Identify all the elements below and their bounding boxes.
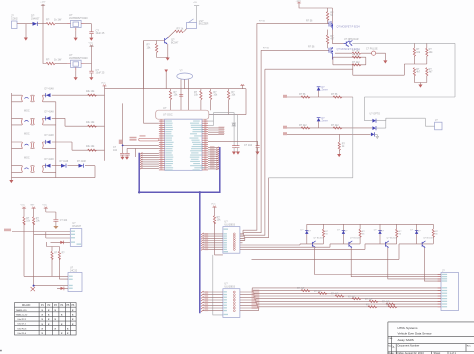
diode D19 <box>61 287 64 290</box>
crystal X1 <box>232 123 236 126</box>
svg-text:1k 1W: 1k 1W <box>54 57 62 61</box>
ground small <box>375 134 379 138</box>
ground <box>89 77 93 80</box>
svg-text:Zener: Zener <box>322 89 328 92</box>
ground earth <box>53 226 58 229</box>
svg-text:DK+MO: DK+MO <box>22 305 30 307</box>
relay cell 2 transistor Q6 <box>343 243 360 245</box>
U5 outputs icons <box>233 233 235 250</box>
resistor R6 <box>200 91 202 100</box>
svg-text:R? 56: R? 56 <box>308 45 315 48</box>
riser 4 <box>240 178 269 241</box>
connector J3 <box>435 122 442 130</box>
svg-text:Q? BC547: Q? BC547 <box>350 238 361 240</box>
IC U6 ULN2803 <box>223 289 240 318</box>
relay cell 3 flyback diode D9 <box>379 224 381 244</box>
diode D1 1N4007 <box>33 22 38 26</box>
wire VBAT <box>46 232 71 238</box>
wire U2 out <box>85 46 92 71</box>
U6 pin names <box>224 291 229 315</box>
relay cell 2 flyback diode D8 <box>342 224 344 244</box>
resistor R7 <box>209 91 211 100</box>
wire out row1 <box>335 52 372 54</box>
relay cell 4 resistor R20 <box>432 224 434 244</box>
ribbon resistor r3 <box>335 295 344 297</box>
svg-text:Q? BC547: Q? BC547 <box>313 238 324 240</box>
relay cell 2 resistor R18 <box>359 224 361 244</box>
bus left <box>139 147 220 313</box>
resistor R22 <box>88 125 97 127</box>
power symbol buzzer <box>194 6 199 23</box>
junction bus corner A <box>138 191 140 193</box>
ground <box>337 154 341 157</box>
wire SDA <box>34 234 71 236</box>
relay cell 4 emitter wire <box>424 248 441 281</box>
ribbon resistor r5 <box>369 300 378 302</box>
svg-text:CON2: CON2 <box>11 17 18 20</box>
ribbon resistor r4 <box>352 298 361 300</box>
svg-text:10uF 25: 10uF 25 <box>96 32 105 35</box>
svg-text:24C32: 24C32 <box>70 269 78 272</box>
relay cell 3 transistor Q7 <box>380 243 397 245</box>
svg-text:40k 10k: 40k 10k <box>86 145 95 148</box>
svg-text:4k7: 4k7 <box>330 38 335 41</box>
diode D16 <box>79 164 84 168</box>
U5 pin names <box>224 229 229 253</box>
resistor R3 <box>175 30 184 32</box>
diode D15 <box>61 164 66 168</box>
relay cell 3 resistor R19 <box>396 224 398 244</box>
base feed cell2 <box>240 244 344 247</box>
relay cell 4 transistor Q8 <box>417 243 434 245</box>
svg-text:D? 4148: D? 4148 <box>45 158 55 161</box>
MCU pin numbers <box>160 119 206 169</box>
svg-text:Q? BC547: Q? BC547 <box>423 238 434 240</box>
resonator pins <box>181 79 188 89</box>
svg-text:+12V: +12V <box>40 2 46 4</box>
resistor R25 <box>33 208 35 234</box>
resistor R16 <box>215 207 223 255</box>
svg-text:R? 2k2: R? 2k2 <box>299 124 307 127</box>
wire out row3 <box>333 57 404 75</box>
ribbon wires to J2 <box>252 288 441 307</box>
diode D13 <box>46 140 51 144</box>
svg-text:R? 4k7: R? 4k7 <box>382 302 390 304</box>
bus ribbon left <box>141 153 159 168</box>
resistor R5 <box>169 91 171 100</box>
svg-text:R? 4k7: R? 4k7 <box>331 294 339 296</box>
ground <box>255 152 259 155</box>
wire SCL <box>12 231 70 233</box>
U6 input wires <box>203 292 223 311</box>
svg-text:R? 2k2: R? 2k2 <box>331 124 339 127</box>
U6 output wires staircase <box>240 288 259 311</box>
capacitor C2 <box>89 71 93 73</box>
riser 2 <box>240 50 261 236</box>
wire y177 <box>269 97 353 178</box>
svg-text:R? 56: R? 56 <box>263 48 270 50</box>
svg-text:40k 10k: 40k 10k <box>86 121 95 124</box>
LED D4 <box>372 119 375 123</box>
power flag <box>164 70 168 73</box>
capacitor C5 <box>236 146 240 148</box>
opto cell1 wires <box>12 95 105 102</box>
ground <box>24 38 28 41</box>
LED D6 <box>371 133 374 137</box>
connector J2 <box>441 273 459 311</box>
svg-text:VCC: VCC <box>21 205 26 207</box>
connector J1 <box>12 21 18 29</box>
net labels <box>219 127 225 128</box>
svg-text:Uhd 27.2: Uhd 27.2 <box>18 324 27 326</box>
J2 pin stubs <box>438 275 441 307</box>
U5 input wires <box>203 234 223 250</box>
wire net row 97 <box>287 96 353 98</box>
wire R1 to U1 <box>55 23 67 25</box>
svg-text:C? PULSE: C? PULSE <box>366 48 378 51</box>
svg-text:U? OSC: U? OSC <box>163 113 173 117</box>
svg-text:U? OPTO: U? OPTO <box>370 113 381 116</box>
wire Q3 drain to darlington <box>332 30 343 44</box>
svg-text:Zener: Zener <box>322 120 328 123</box>
resistor R24 <box>23 208 25 231</box>
ground <box>418 85 422 88</box>
svg-text:ULN2803: ULN2803 <box>224 285 235 288</box>
wire Q1 base <box>144 41 165 89</box>
svg-text:4k7: 4k7 <box>416 71 421 74</box>
transistor Q4 MOSFET-P <box>329 47 332 60</box>
diode D12 <box>46 116 51 120</box>
lamp D-pulse <box>372 51 376 55</box>
junction hatch right <box>252 290 260 310</box>
J2 pin names <box>442 274 448 308</box>
resistor R26 <box>51 247 53 277</box>
wire AREF <box>208 141 258 145</box>
net labels right col <box>210 146 215 168</box>
resistor R21 <box>88 94 97 96</box>
svg-text:Away SARS: Away SARS <box>398 338 414 342</box>
wire out row2 <box>332 57 365 65</box>
svg-text:R? 4k7: R? 4k7 <box>348 296 356 298</box>
ribbon resistor r7 <box>368 306 397 308</box>
wire LED1 out <box>364 118 434 126</box>
wire pair bottoms <box>414 76 426 85</box>
U5 output wires <box>240 234 245 243</box>
MCU pins left <box>159 121 165 170</box>
relay cell 3 emitter wire <box>388 248 441 279</box>
MCU U3 <box>165 119 202 170</box>
relay cell 1 resistor R17 <box>323 224 325 244</box>
wire U1 out <box>85 24 92 32</box>
svg-text:TMA2.2-L2D: TMA2.2-L2D <box>16 313 28 316</box>
diode D2 zener <box>317 87 321 90</box>
svg-text:LM78M05/TO220: LM78M05/TO220 <box>69 17 88 20</box>
ground <box>166 58 170 61</box>
transistor Q3 MOSFET-P <box>329 21 332 30</box>
wire left feed A <box>144 41 159 124</box>
svg-text:40k 10k: 40k 10k <box>86 90 95 93</box>
capacitor C3 <box>179 94 183 96</box>
ribbon resistor r1 <box>301 290 310 292</box>
wire left feed B <box>123 103 159 153</box>
svg-text:R? 2k2: R? 2k2 <box>352 54 360 57</box>
svg-text:104: 104 <box>113 149 118 152</box>
bus entries left <box>140 153 142 170</box>
table x marks <box>42 309 75 335</box>
wire legs down <box>24 232 60 286</box>
base feed cell1 <box>240 244 307 245</box>
wire buzzer to R3 to Q1 <box>168 29 187 38</box>
junction bus corner B <box>199 191 201 193</box>
resistor R1 <box>46 23 55 25</box>
title block frame <box>388 322 474 354</box>
svg-text:R? 56: R? 56 <box>306 20 313 23</box>
ground <box>74 77 78 80</box>
module box <box>156 110 209 119</box>
power symbol +12V <box>41 4 45 6</box>
svg-text:R? 56: R? 56 <box>299 93 306 96</box>
power symbol VCC12 <box>297 2 301 4</box>
no-connect X <box>31 287 35 291</box>
svg-text:VCC: VCC <box>101 83 106 85</box>
XTAL wires <box>208 113 238 146</box>
net stub wires right <box>208 128 224 134</box>
power symbol RTC1 <box>22 207 26 209</box>
svg-text:D? 4148: D? 4148 <box>60 161 69 163</box>
svg-text:BUZZER: BUZZER <box>199 23 209 26</box>
svg-text:R? 56: R? 56 <box>259 21 266 23</box>
svg-text:VCC: VCC <box>211 204 216 206</box>
svg-text:LM78M05/TO220: LM78M05/TO220 <box>69 57 88 60</box>
resistor R10 <box>326 35 328 44</box>
opto cell3 input <box>22 142 32 149</box>
wire gate1 <box>257 22 329 24</box>
resistor R8 <box>227 91 229 100</box>
svg-text:R? 4k7: R? 4k7 <box>314 291 322 293</box>
svg-text:+12V: +12V <box>296 1 302 3</box>
wire crystal drop <box>181 89 188 111</box>
resistor R2 <box>46 62 55 64</box>
opto cell3 wires <box>12 142 105 150</box>
resistor R27 <box>58 247 60 280</box>
opto cell1 input <box>22 95 32 102</box>
riser 1 <box>240 23 257 234</box>
resistor R4 10k <box>155 44 157 53</box>
svg-text:R? 4k7: R? 4k7 <box>365 299 373 301</box>
resistor pair bottom R13 R14 <box>413 68 428 76</box>
ribbon resistor r2 <box>318 292 327 294</box>
junction <box>33 285 35 287</box>
title block text <box>388 326 471 354</box>
svg-text:D? 4148: D? 4148 <box>45 87 55 90</box>
buzzer LS1 <box>187 23 197 29</box>
diode D14 <box>46 164 51 168</box>
svg-text:R? 2k2: R? 2k2 <box>352 61 360 64</box>
svg-text:D? 4148: D? 4148 <box>45 111 55 114</box>
base feed cell4 <box>252 244 417 260</box>
table header <box>22 305 75 307</box>
svg-text:D? 4148: D? 4148 <box>45 134 55 137</box>
svg-text:R? 4k7: R? 4k7 <box>297 288 305 290</box>
bus entries right <box>216 147 218 170</box>
junction hatch <box>205 291 209 311</box>
svg-text:Uhd P2.2: Uhd P2.2 <box>18 319 28 321</box>
opto cell4 input <box>22 166 32 173</box>
svg-text:R?: R? <box>46 18 50 22</box>
svg-text:BC547: BC547 <box>171 41 179 44</box>
svg-text:Vehicle Ever Data Sensor: Vehicle Ever Data Sensor <box>398 331 432 335</box>
svg-text:4k7: 4k7 <box>429 71 434 74</box>
svg-text:HTRL Systems: HTRL Systems <box>398 326 419 330</box>
svg-text:MOC: MOC <box>24 133 30 136</box>
LED D5 <box>372 126 375 130</box>
relay cell 1 emitter wire <box>315 248 441 275</box>
power symbol VCC row2 <box>89 45 93 47</box>
svg-text:Q? BC547: Q? BC547 <box>387 238 398 240</box>
svg-text:VCC: VCC <box>42 205 47 207</box>
IC U5 ULN2803 <box>223 227 240 254</box>
resistor R9 <box>326 12 328 21</box>
wire net row 134 <box>287 133 371 135</box>
ribbon resistor r6 <box>386 303 395 305</box>
wire darlington collector loop <box>352 43 455 120</box>
opto cell4 wires <box>12 166 96 178</box>
svg-text:10uF 25: 10uF 25 <box>96 72 105 75</box>
power symbol RTC2 <box>32 207 36 209</box>
capacitor C1 <box>89 32 93 34</box>
relay cell 1 transistor Q5 <box>307 243 324 245</box>
wire row4 long <box>265 68 353 70</box>
relay cell 4 flyback diode D10 <box>416 224 418 244</box>
svg-text:Document Number: Document Number <box>398 344 420 348</box>
svg-text:C? 104: C? 104 <box>60 220 68 222</box>
svg-text:1N4007: 1N4007 <box>31 17 40 20</box>
base feed cell3 <box>240 244 380 250</box>
regulator U2 LM78M05 <box>71 60 82 67</box>
transistor U4 NPN darlington <box>344 40 353 46</box>
capacitor C4 <box>232 146 236 148</box>
wire VCC to Q3 <box>299 3 332 24</box>
diode D11 <box>46 93 51 97</box>
svg-text:DS1337: DS1337 <box>72 225 81 228</box>
ground <box>383 60 387 63</box>
wire VCC rail <box>105 86 247 115</box>
bus entries <box>201 233 204 251</box>
wire gate2 <box>261 49 329 51</box>
U6 outputs icons <box>233 291 235 312</box>
IC U7 RTC <box>70 229 82 247</box>
svg-text:Uhd 25-6: Uhd 25-6 <box>18 333 27 335</box>
ground <box>125 157 129 160</box>
wire LED2 out <box>372 118 386 128</box>
svg-text:R?: R? <box>46 57 50 61</box>
wire lamp to ground <box>376 53 386 60</box>
ground <box>236 152 240 155</box>
wires into U8 <box>24 276 68 285</box>
svg-text:MOC: MOC <box>24 156 30 159</box>
svg-text:D? 4148: D? 4148 <box>77 161 86 163</box>
svg-text:+5V: +5V <box>193 2 197 4</box>
ground <box>89 38 93 41</box>
svg-text:Uhd P2-6: Uhd P2-6 <box>18 328 28 330</box>
power symbol RTC3 <box>44 207 48 209</box>
svg-text:R? 56: R? 56 <box>331 93 338 96</box>
inductor FB1 <box>139 138 159 141</box>
wire J1 to D1 <box>17 24 33 38</box>
net label <box>119 140 122 144</box>
svg-text:TMA23-L2D: TMA23-L2D <box>16 309 28 312</box>
svg-text:R? 2k2: R? 2k2 <box>352 49 360 52</box>
regulator U1 LM78M05 <box>71 20 82 27</box>
ground <box>74 38 78 41</box>
relay cell rail <box>307 223 434 225</box>
relay cell 1 flyback diode D7 <box>306 224 308 244</box>
resistor R23 <box>88 149 97 151</box>
capacitor C6 <box>256 146 260 148</box>
power symbol ULN1 <box>212 206 216 208</box>
svg-text:MOC: MOC <box>24 110 30 113</box>
resistor R15 <box>338 134 340 154</box>
transistor Q1 BC547 <box>165 37 168 44</box>
riser 3 <box>240 69 265 238</box>
svg-text:ULN2803: ULN2803 <box>224 223 235 226</box>
left bus vertical <box>11 93 13 180</box>
svg-text:Q? MOSFET P 9Z34: Q? MOSFET P 9Z34 <box>337 26 361 29</box>
ground <box>9 180 13 183</box>
resonator Y1 <box>177 73 193 79</box>
wire left feed C <box>135 148 137 157</box>
wire R2 to U2 <box>55 63 67 65</box>
svg-text:C? 104: C? 104 <box>244 144 253 147</box>
opto cell2 input <box>22 118 32 125</box>
table <box>15 303 77 335</box>
opto cell2 wires <box>12 118 105 126</box>
svg-text:VCC: VCC <box>89 43 94 45</box>
svg-text:U? NPN DAR: U? NPN DAR <box>344 38 359 41</box>
svg-text:VBT: VBT <box>30 205 35 207</box>
power symbol VCC rail <box>102 85 106 87</box>
wire main 12V rail <box>37 6 46 64</box>
svg-text:1k 1W: 1k 1W <box>54 18 62 22</box>
power flag rail right <box>240 84 244 86</box>
bottom rail <box>12 89 105 178</box>
MCU pins right <box>202 121 208 170</box>
bus ribbon right <box>208 148 219 169</box>
relay cell 2 emitter wire <box>351 248 441 277</box>
svg-text:A: A <box>393 345 395 349</box>
bus entries <box>201 291 204 312</box>
IC U8 lower <box>68 273 82 292</box>
table rows <box>16 309 28 335</box>
edge artifact <box>0 350 2 352</box>
diode D3 zener <box>317 118 321 121</box>
junction hatch <box>205 233 209 250</box>
MCU pin names <box>165 121 205 171</box>
ground <box>120 157 124 160</box>
resistor pair top R11 R12 <box>414 43 426 64</box>
wire COM2 <box>213 255 223 315</box>
wire emitter to ground <box>157 44 168 58</box>
wire net row 128 <box>287 127 372 129</box>
wire mid junction <box>404 64 427 75</box>
capacitor C8 <box>46 208 56 219</box>
svg-text:U?: U? <box>163 106 167 110</box>
ground <box>232 152 236 155</box>
diode D18 <box>51 241 71 243</box>
svg-text:R? 1k: R? 1k <box>177 27 184 31</box>
